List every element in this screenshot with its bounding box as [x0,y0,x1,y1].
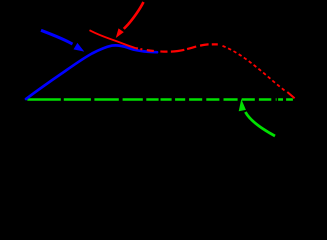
red arrowhead [116,28,124,38]
red curve final streak [287,92,294,98]
blue arrow shaft [41,30,73,44]
blue curve [26,45,157,99]
red curve dashed segment [136,44,219,51]
green arrowhead [239,99,246,111]
blue arrowhead [74,43,85,52]
green dashed baseline [27,98,293,101]
red arrow shaft [124,2,144,29]
red curve solid segment [90,30,137,48]
green arrow shaft [245,112,275,136]
red curve dotted segment [223,46,287,92]
